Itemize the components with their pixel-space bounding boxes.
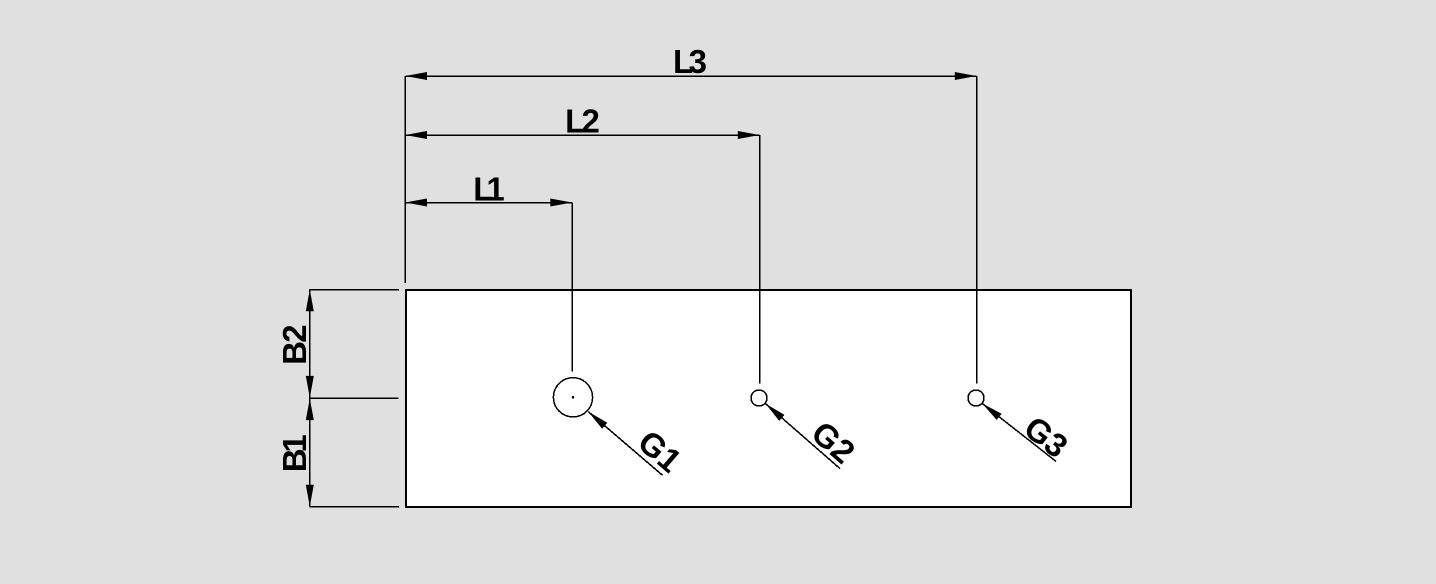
label B2 bbox=[276, 324, 313, 365]
arrowhead L2 right bbox=[738, 131, 760, 139]
leader arrowhead G1 bbox=[588, 412, 607, 429]
svg-text:L2: L2 bbox=[565, 102, 600, 139]
label G2 bbox=[805, 414, 863, 471]
leader line G3 bbox=[982, 403, 1056, 461]
arrowhead L1 left bbox=[405, 199, 427, 207]
leader arrowhead G2 bbox=[766, 404, 785, 421]
extension line left vertical (common origin of L dims) bbox=[404, 76, 406, 283]
dimension line L1 bbox=[405, 202, 572, 204]
hole G2 circle bbox=[751, 390, 767, 406]
leader arrowhead G3 bbox=[982, 403, 1002, 420]
arrowhead L3 right bbox=[955, 72, 977, 80]
svg-text:B2: B2 bbox=[276, 324, 313, 365]
leader line G1 bbox=[588, 412, 662, 476]
connector line from L2 down to hole G2 bbox=[759, 135, 761, 383]
leader line G2 bbox=[766, 404, 841, 469]
svg-text:L1: L1 bbox=[473, 170, 505, 207]
arrowhead B1 top bbox=[306, 398, 314, 420]
connector line from L3 down to hole G3 bbox=[976, 76, 978, 384]
label G3 bbox=[1017, 409, 1074, 465]
extension line B bottom bbox=[310, 506, 400, 508]
hole G1 circle bbox=[553, 378, 592, 417]
label B1 bbox=[276, 434, 313, 472]
arrowhead B1 bottom bbox=[306, 485, 314, 507]
svg-text:L3: L3 bbox=[673, 43, 707, 80]
plate outline rectangle bbox=[406, 290, 1131, 507]
hole G3 circle bbox=[968, 390, 984, 406]
arrowhead L1 right bbox=[550, 199, 572, 207]
hole G1 center dot bbox=[572, 396, 575, 399]
extension line B top bbox=[310, 289, 400, 291]
arrowhead L2 left bbox=[405, 131, 427, 139]
dimension line L3 bbox=[405, 75, 976, 77]
arrowhead B2 bottom bbox=[306, 376, 314, 398]
arrowhead L3 left bbox=[405, 72, 427, 80]
svg-text:B1: B1 bbox=[276, 434, 313, 472]
connector line from L1 down to hole G1 bbox=[571, 203, 573, 372]
label G1 bbox=[631, 423, 689, 480]
dimension line B (vertical) bbox=[309, 290, 311, 507]
arrowhead B2 top bbox=[306, 290, 314, 312]
extension line B middle bbox=[310, 397, 399, 399]
dimension line L2 bbox=[405, 134, 759, 136]
